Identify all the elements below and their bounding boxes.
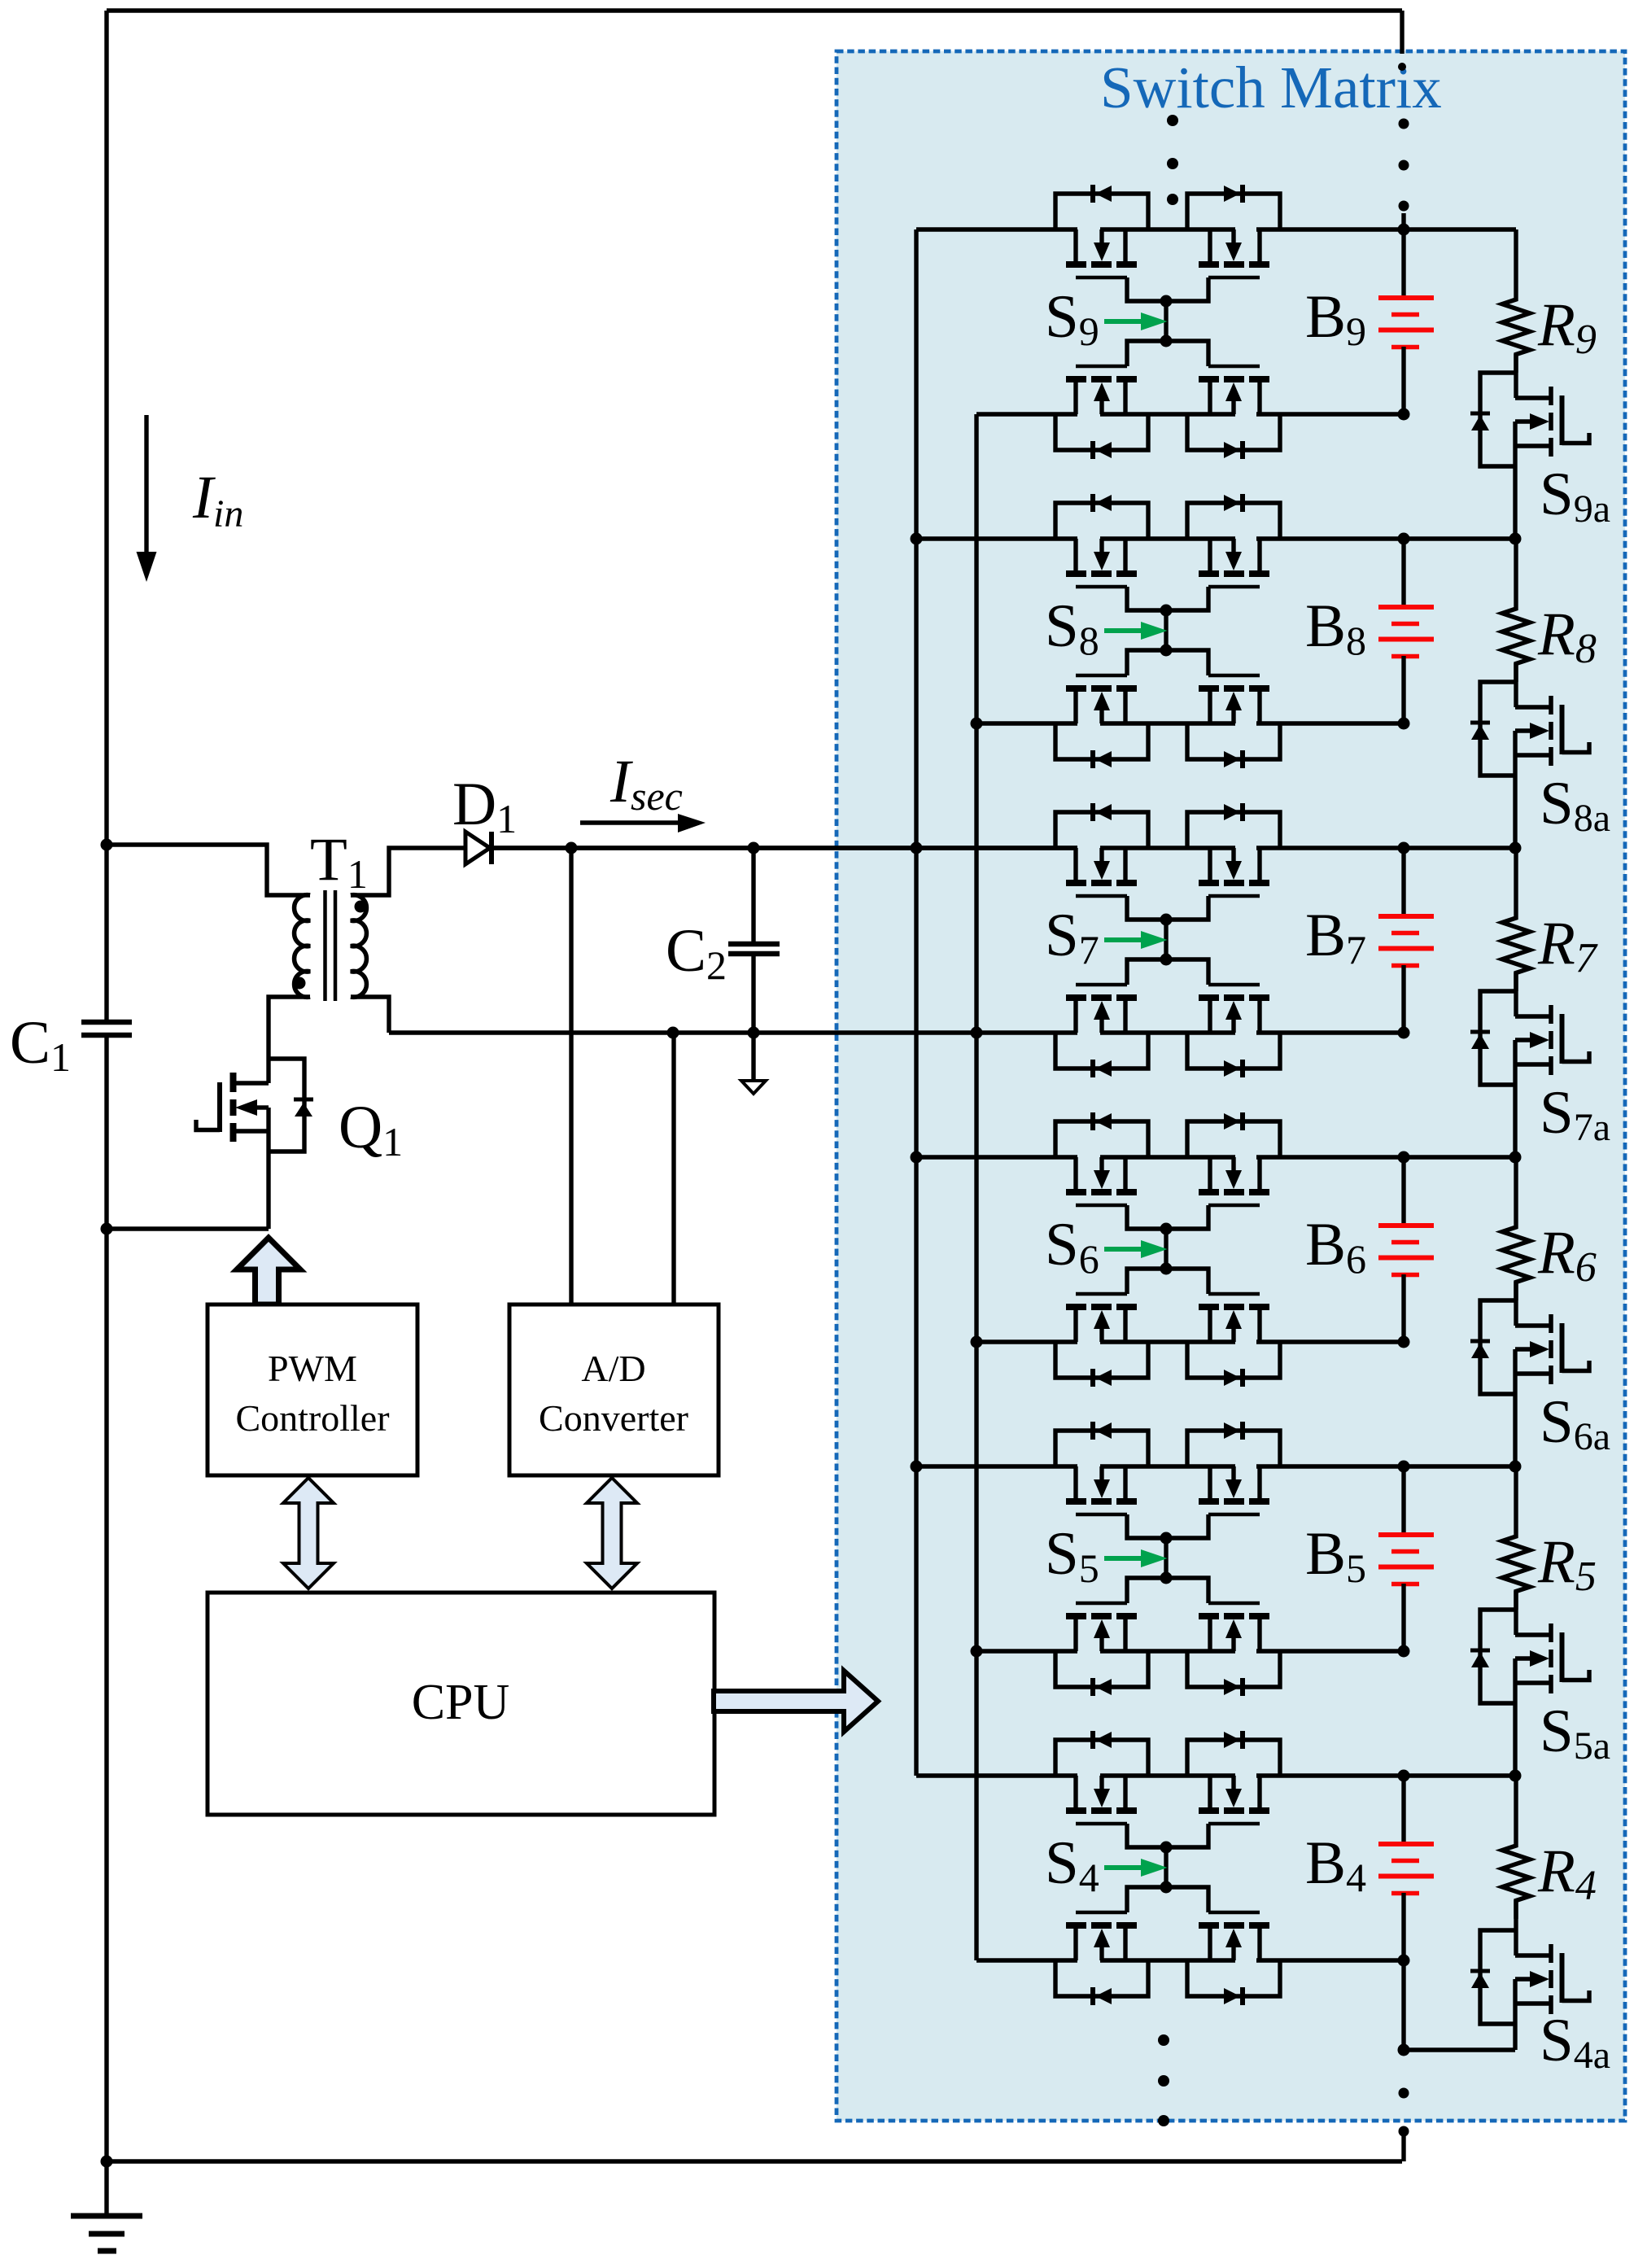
node bus1 tap y1422 — [911, 1151, 923, 1164]
svg-text:PWM: PWM — [268, 1348, 357, 1389]
wire D1 cathode to node — [494, 846, 1077, 850]
diode S9 bottom left body diode — [1055, 414, 1148, 450]
transistor S7 top right MOSFET — [1257, 848, 1261, 880]
transistor S8 bottom right MOSFET — [1257, 692, 1261, 723]
block PWM Controller — [208, 1304, 417, 1475]
wire S6a source down — [1513, 1349, 1517, 1466]
transformer T1 primary polarity dot — [294, 977, 306, 990]
diode S8 bottom right body diode — [1187, 723, 1280, 759]
resistor R7 — [1502, 848, 1530, 991]
node S6a source junction — [1509, 1461, 1522, 1473]
node B9 top — [1398, 224, 1410, 236]
wire S5 top rail — [916, 1464, 1077, 1468]
wire secondary bottom rail to matrix — [389, 1030, 1077, 1034]
transistor S5a — [1514, 1591, 1518, 1635]
node sense tap bottom — [667, 1027, 679, 1039]
node bus1 tap y1802 — [911, 1461, 923, 1473]
wire left input rail lower — [104, 1038, 108, 2161]
wire S7 bottom gate step — [1127, 959, 1208, 985]
node B4 top — [1398, 1770, 1410, 1782]
transistor Q1 — [230, 1073, 237, 1092]
arrow S8 control (green) — [1104, 628, 1142, 633]
transistor S5 bottom left MOSFET — [1073, 1619, 1077, 1651]
diode S5 top right body diode — [1187, 1431, 1280, 1466]
node entry cap dot — [1398, 63, 1406, 71]
wire S7a source down — [1513, 1040, 1517, 1157]
diode S4 top left body diode — [1055, 1740, 1148, 1776]
switch matrix shaded region — [837, 51, 1625, 2121]
diode S8 top right body diode — [1187, 503, 1280, 539]
transistor S7 top left MOSFET — [1073, 848, 1077, 880]
arrow S9 control (green) — [1104, 319, 1142, 324]
wire S7 top gate step — [1127, 896, 1208, 920]
transistor S9 top right MOSFET — [1257, 229, 1261, 261]
wire S9 bottom gate step — [1127, 341, 1208, 366]
wire Q1 source to rail — [107, 1226, 269, 1230]
switch matrix dashed border — [837, 51, 1625, 2121]
capacitor C2 — [751, 848, 755, 942]
wire S4 bottom gate step — [1127, 1887, 1208, 1912]
wire S5 top gate step — [1127, 1514, 1208, 1538]
block arrow PWM-CPU bidirectional — [283, 1478, 334, 1588]
wire S7 bottom rail — [1100, 1030, 1235, 1034]
resistor R9 — [1502, 229, 1530, 373]
node S4 gate — [1164, 1847, 1168, 1887]
diode S8a body — [1480, 682, 1515, 776]
node S9a source junction — [1509, 533, 1522, 545]
node bus1 tap y662 — [911, 533, 923, 545]
arrow Iin current — [144, 415, 148, 557]
wire S4a source down — [1513, 1979, 1517, 2050]
node B6 top — [1398, 1151, 1410, 1164]
transistor S7 bottom right MOSFET — [1257, 1001, 1261, 1033]
diode S6a body — [1480, 1300, 1515, 1394]
node B9 bottom — [1398, 409, 1410, 421]
node bottom inter-cell rail — [1398, 2044, 1410, 2056]
node B7 bottom — [1398, 1027, 1410, 1039]
wire S7 top rail — [494, 846, 1077, 850]
diode S8 bottom left body diode — [1055, 723, 1148, 759]
wire S8 bottom gate step — [1127, 650, 1208, 675]
transistor S8a — [1514, 663, 1518, 707]
dots switch column top — [1167, 115, 1178, 126]
transistor S6 top right MOSFET — [1257, 1157, 1261, 1189]
wire battery column to bottom bus — [1401, 2131, 1405, 2161]
svg-text:T1: T1 — [310, 826, 368, 897]
capacitor C1 — [81, 1020, 132, 1025]
wire S4 top rail — [916, 1773, 1077, 1777]
diode S5 bottom left body diode — [1055, 1651, 1148, 1687]
diode S6 top right body diode — [1187, 1121, 1280, 1157]
svg-text:Controller: Controller — [235, 1397, 389, 1439]
diode S5a body — [1480, 1610, 1515, 1703]
node B6 bottom — [1398, 1336, 1410, 1348]
wire S8 bottom rail — [976, 721, 1077, 725]
node S5a source junction — [1509, 1770, 1522, 1782]
node S8a source junction — [1509, 842, 1522, 854]
ground (output) — [751, 1033, 755, 1079]
diode S7 bottom left body diode — [1055, 1033, 1148, 1068]
transistor S9a — [1514, 354, 1518, 398]
diode D1 — [465, 832, 490, 864]
resistor R8 — [1502, 539, 1530, 682]
diode S6 bottom right body diode — [1187, 1342, 1280, 1378]
block arrow PWM to Q1 gate drive — [237, 1238, 300, 1304]
diode S4 top right body diode — [1187, 1740, 1280, 1776]
wire S6 bottom gate step — [1127, 1269, 1208, 1294]
wire bottom return bus — [107, 2159, 1402, 2163]
svg-text:A/D: A/D — [581, 1348, 645, 1389]
transistor S6 bottom right MOSFET — [1257, 1310, 1261, 1342]
node bus2 tap y2029 — [971, 1645, 983, 1658]
transistor S8 top left MOSFET — [1073, 539, 1077, 570]
wire S5 bottom gate step — [1127, 1578, 1208, 1603]
diode S7 bottom right body diode — [1187, 1033, 1280, 1068]
svg-text:Isec: Isec — [609, 748, 683, 819]
svg-text:C2: C2 — [666, 917, 727, 988]
node B5 top — [1398, 1461, 1410, 1473]
wire bottom inter-cell rail — [1404, 2047, 1515, 2052]
wire S9a source down — [1513, 422, 1517, 539]
wire secondary top to D1 — [351, 848, 465, 895]
node C2 bottom — [748, 1027, 760, 1039]
wire S9 bottom rail — [976, 412, 1077, 416]
node B5 bottom — [1398, 1645, 1410, 1658]
diode S5 bottom right body diode — [1187, 1651, 1280, 1687]
arrow S4 control (green) — [1104, 1865, 1142, 1870]
resistor R4 — [1502, 1776, 1530, 1919]
transistor S6 top left MOSFET — [1073, 1157, 1077, 1189]
diode S7 top left body diode — [1055, 812, 1148, 848]
svg-text:CPU: CPU — [412, 1675, 510, 1730]
resistor R5 — [1502, 1466, 1530, 1610]
wire sense top to A/D — [569, 848, 573, 1304]
node Q1 source junction — [101, 1223, 113, 1235]
svg-text:Converter: Converter — [539, 1397, 688, 1439]
wire S6 top rail — [916, 1155, 1077, 1159]
node B8 bottom — [1398, 718, 1410, 730]
node B7 top — [1398, 842, 1410, 854]
wire S8a source down — [1513, 731, 1517, 848]
wire S9 top gate step — [1127, 277, 1208, 301]
diode S9 top left body diode — [1055, 194, 1148, 229]
transistor S4a — [1514, 1900, 1518, 1956]
node input top junction — [101, 839, 113, 851]
wire secondary bottom — [351, 997, 389, 1033]
node B8 top — [1398, 533, 1410, 545]
diode S4 bottom left body diode — [1055, 1960, 1148, 1996]
ground (input) — [104, 2161, 108, 2214]
wire S6 top gate step — [1127, 1205, 1208, 1229]
node S5 gate — [1164, 1538, 1168, 1578]
transistor S6 bottom left MOSFET — [1073, 1310, 1077, 1342]
wire S4 bottom rail — [976, 1958, 1077, 1962]
transformer T1 core — [323, 890, 327, 1001]
transistor S5 top right MOSFET — [1257, 1466, 1261, 1498]
node bus2 tap y889 — [971, 718, 983, 730]
block A/D Converter — [509, 1304, 719, 1475]
diode S7a body — [1480, 991, 1515, 1085]
battery B5 — [1401, 1466, 1405, 1535]
arrow S7 control (green) — [1104, 937, 1142, 942]
wire S8 top gate step — [1127, 587, 1208, 610]
wire S5 bottom rail — [976, 1649, 1077, 1653]
diode Q1 body — [269, 1059, 304, 1151]
wire input to transformer primary top — [107, 845, 310, 895]
transformer T1 secondary winding — [351, 895, 366, 998]
wire left input rail upper — [104, 11, 108, 1020]
transistor S7 bottom left MOSFET — [1073, 1001, 1077, 1033]
transistor S9 bottom left MOSFET — [1073, 382, 1077, 414]
transistor S8 top right MOSFET — [1257, 539, 1261, 570]
battery B9 — [1401, 229, 1405, 298]
svg-text:Iin: Iin — [192, 464, 243, 535]
block CPU — [208, 1593, 714, 1815]
transistor S5 bottom right MOSFET — [1257, 1619, 1261, 1651]
wire S6 bottom rail — [976, 1339, 1077, 1344]
node S8 gate — [1164, 610, 1168, 650]
transistor S4 top right MOSFET — [1257, 1776, 1261, 1807]
diode S9 top right body diode — [1187, 194, 1280, 229]
wire S8 top rail — [916, 536, 1077, 540]
wire sense bottom to A/D — [671, 1033, 675, 1304]
diode S6 top left body diode — [1055, 1121, 1148, 1157]
node bus1 tap y1042 — [911, 842, 923, 854]
battery B6 — [1401, 1157, 1405, 1226]
node S9 gate — [1164, 301, 1168, 341]
diode S4a body — [1480, 1930, 1515, 2024]
node S7a source junction — [1509, 1151, 1522, 1164]
diode S9a body — [1480, 373, 1515, 466]
wire battery column bottom — [1401, 1960, 1405, 2050]
diode S4 bottom right body diode — [1187, 1960, 1280, 1996]
arrow S6 control (green) — [1104, 1247, 1142, 1252]
wire primary bottom to Q1 drain — [269, 997, 310, 1083]
transistor S9 top left MOSFET — [1073, 229, 1077, 261]
dots battery column bottom — [1399, 2088, 1409, 2099]
transistor S9 bottom right MOSFET — [1257, 382, 1261, 414]
node bus2 tap y1269 — [971, 1027, 983, 1039]
dots switch column bottom — [1158, 2034, 1169, 2046]
transistor S7a — [1514, 972, 1518, 1016]
svg-text:C1: C1 — [10, 1009, 71, 1080]
transistor S4 bottom right MOSFET — [1257, 1929, 1261, 1960]
resistor R6 — [1502, 1157, 1530, 1300]
wire S5a source down — [1513, 1658, 1517, 1776]
dots battery column top — [1399, 119, 1409, 129]
battery B4 — [1401, 1776, 1405, 1844]
battery B8 — [1401, 539, 1405, 607]
diode S5 top left body diode — [1055, 1431, 1148, 1466]
transistor S6a — [1514, 1282, 1518, 1326]
diode S6 bottom left body diode — [1055, 1342, 1148, 1378]
diode S8 top left body diode — [1055, 503, 1148, 539]
transistor S8 bottom left MOSFET — [1073, 692, 1077, 723]
node bottom-left ground junction — [101, 2156, 113, 2168]
diode S7 top right body diode — [1187, 812, 1280, 848]
svg-text:Q1: Q1 — [339, 1094, 403, 1165]
transistor S5 top left MOSFET — [1073, 1466, 1077, 1498]
svg-text:Switch Matrix: Switch Matrix — [1100, 55, 1442, 120]
arrow Isec current — [580, 820, 680, 824]
block arrow A/D-CPU bidirectional — [587, 1478, 637, 1588]
wire top bus into matrix — [1400, 11, 1404, 54]
wire gate-bus left (even rails) — [974, 414, 978, 1960]
node bus2 tap y1649 — [971, 1336, 983, 1348]
transformer T1 primary winding — [295, 895, 310, 998]
block arrow CPU to switch matrix — [714, 1671, 878, 1732]
battery B7 — [1401, 848, 1405, 916]
node S7 gate — [1164, 920, 1168, 959]
wire S9 top rail — [916, 227, 1077, 231]
node B4 bottom — [1398, 1955, 1410, 1967]
transistor S4 top left MOSFET — [1073, 1776, 1077, 1807]
node secondary top / sense tap — [566, 842, 578, 854]
svg-text:D1: D1 — [452, 771, 517, 841]
node C2 top — [748, 842, 760, 854]
wire S4 top gate step — [1127, 1824, 1208, 1847]
node S6 gate — [1164, 1229, 1168, 1269]
transformer T1 secondary polarity dot — [355, 901, 367, 913]
wire top bus — [107, 8, 1402, 12]
wire gate-bus left (odd rails) — [914, 229, 918, 1776]
arrow S5 control (green) — [1104, 1556, 1142, 1561]
transistor S4 bottom left MOSFET — [1073, 1929, 1077, 1960]
diode S9 bottom right body diode — [1187, 414, 1280, 450]
